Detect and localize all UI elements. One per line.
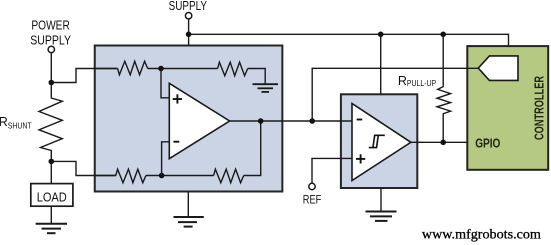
wire: supply rail to controller xyxy=(189,34,509,46)
op-amp minus sign xyxy=(173,141,179,143)
svg-text:www.mfgrobots.com: www.mfgrobots.com xyxy=(422,228,541,243)
resistor R3 (input, bottom) xyxy=(116,169,146,183)
node: output/feedback xyxy=(258,118,264,124)
hysteresis symbol xyxy=(369,135,385,147)
resistor R4 (feedback, bottom) xyxy=(214,169,244,183)
wire: op-amp output to comparator xyxy=(230,120,352,122)
resistor RSHUNT (vertical) xyxy=(39,83,62,162)
wire: top row to internal ground xyxy=(248,69,266,85)
svg-text:LOAD: LOAD xyxy=(37,190,67,204)
node B xyxy=(49,159,55,165)
wire: supply terminal down to rail xyxy=(188,19,190,34)
op-amp plus sign xyxy=(173,94,182,103)
comparator block box xyxy=(341,94,417,188)
ground G2 below amplifier box xyxy=(174,217,204,227)
svg-text:SUPPLY: SUPPLY xyxy=(30,33,71,47)
resistor R1 (input, top) xyxy=(118,61,148,75)
wire: node A jog to amplifier top row xyxy=(51,69,117,83)
LOAD box xyxy=(31,184,73,207)
svg-text:POWER: POWER xyxy=(31,18,69,32)
svg-text:GPIO: GPIO xyxy=(475,137,500,151)
node: rail to pull-up xyxy=(440,32,446,38)
node: top row xyxy=(158,66,164,72)
wire: node B down to LOAD xyxy=(50,161,52,183)
wire: output up and right to controller input xyxy=(312,68,478,121)
power supply terminal xyxy=(48,46,54,52)
node A xyxy=(49,80,55,86)
comparator plus sign xyxy=(356,154,365,163)
wire: comparator + input to REF xyxy=(312,158,352,183)
svg-text:CONTROLLER: CONTROLLER xyxy=(533,76,547,140)
wire: amplifier bottom row left segment xyxy=(95,175,116,177)
wire: power supply terminal down to node A xyxy=(50,53,52,83)
wire: bottom feedback up to output xyxy=(244,121,261,176)
node: rail to comparator supply xyxy=(378,32,384,38)
wire: amplifier ground stem xyxy=(187,192,189,218)
wire: between bottom resistors xyxy=(146,175,214,177)
wire: comparator supply drop xyxy=(380,34,382,94)
ground G3 inside amplifier box xyxy=(253,84,279,92)
ground G4 below comparator box xyxy=(366,212,397,221)
node: output/controller tap xyxy=(309,118,315,124)
node: bottom row xyxy=(159,173,165,179)
resistor R2 (feedback, top) xyxy=(218,62,248,75)
controller box xyxy=(467,46,548,170)
resistor RPULLUP (vertical) with wires xyxy=(437,34,451,142)
comparator U2 xyxy=(352,104,411,181)
comparator minus sign xyxy=(357,119,363,121)
wire: LOAD to ground xyxy=(50,206,52,224)
controller input pin (pentagon) xyxy=(478,56,518,81)
wire: amplifier top row left segment xyxy=(95,68,118,70)
wire: node B jog to amplifier bottom row xyxy=(51,161,116,175)
wire: rail drop into amplifier box xyxy=(188,34,190,45)
REF terminal xyxy=(309,183,315,189)
ground G1 below LOAD xyxy=(36,224,67,233)
wire: comparator output / GPIO line xyxy=(411,141,467,143)
svg-text:SUPPLY: SUPPLY xyxy=(169,0,208,13)
op-amp U1 xyxy=(169,83,229,158)
svg-text:REF: REF xyxy=(303,194,322,206)
node: GPIO/pull-up xyxy=(440,140,446,146)
wire: comparator ground stem xyxy=(380,188,382,212)
supply terminal xyxy=(185,13,191,19)
wire: node to +input xyxy=(161,69,169,98)
wire: between top resistors xyxy=(148,68,218,70)
node: rail at supply xyxy=(186,32,192,38)
amplifier block box xyxy=(95,46,283,192)
wire: node to -input xyxy=(162,142,170,176)
